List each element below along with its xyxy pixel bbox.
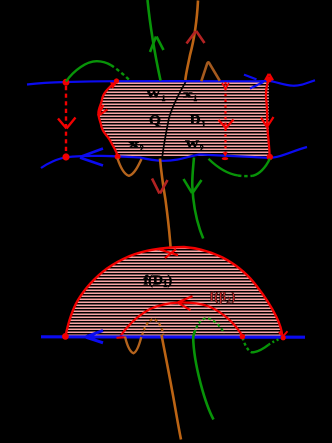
svg-text:1: 1 [202,118,206,128]
svg-text:Q: Q [149,113,161,128]
svg-text:f(β2): f(β2) [210,290,236,306]
svg-text:W: W [185,140,200,151]
svg-text:1: 1 [193,94,197,103]
svg-text:2: 2 [140,144,144,153]
svg-text:x: x [129,139,140,151]
svg-text:2: 2 [200,144,204,153]
svg-text:f(D1): f(D1) [144,274,173,290]
svg-text:W: W [146,89,161,100]
svg-text:D: D [190,112,201,127]
svg-text:x: x [183,89,193,101]
svg-text:1: 1 [162,94,166,103]
